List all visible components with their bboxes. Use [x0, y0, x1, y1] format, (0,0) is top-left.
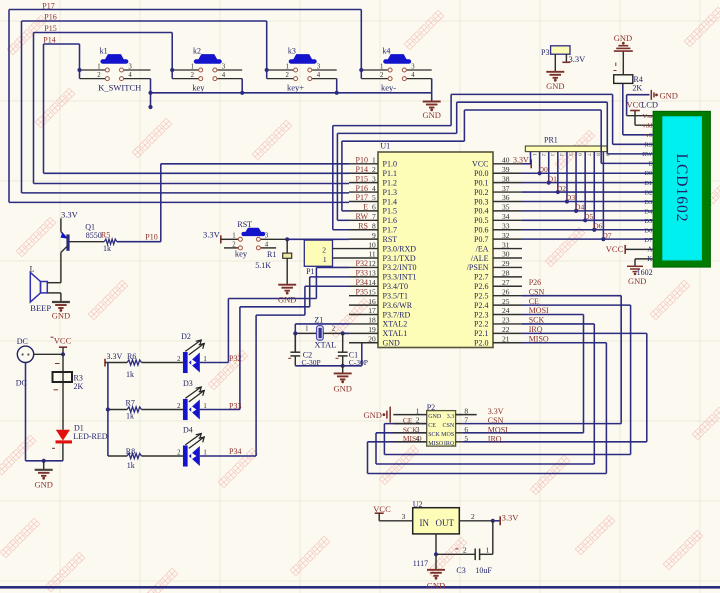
wire RST to U1 pin9	[287, 238, 349, 240]
wire DC to VCC node	[34, 353, 63, 355]
node crystal rail junction	[341, 364, 345, 368]
svg-text:MOSI: MOSI	[488, 425, 508, 434]
svg-text:R7: R7	[126, 399, 135, 408]
wire net P15	[34, 33, 350, 184]
svg-text:D2: D2	[181, 332, 191, 341]
svg-text:P2.0: P2.0	[474, 339, 488, 348]
junction dots key matrix	[77, 68, 363, 109]
svg-text:2: 2	[97, 72, 101, 79]
svg-text:GND: GND	[628, 276, 646, 286]
svg-text:D4: D4	[183, 426, 193, 435]
U1 pin names right	[467, 160, 489, 348]
svg-text:RS: RS	[358, 221, 368, 230]
transistor Q1 8550	[61, 218, 105, 282]
svg-text:P1.0: P1.0	[383, 160, 397, 169]
svg-text:28: 28	[502, 269, 510, 278]
wire net P17	[9, 10, 361, 203]
svg-text:VCC: VCC	[606, 244, 624, 254]
svg-text:GND: GND	[333, 383, 351, 393]
regulator U2 1117	[413, 500, 460, 568]
svg-text:36: 36	[502, 193, 510, 202]
svg-text:1: 1	[372, 156, 376, 165]
svg-text:Q1: Q1	[85, 222, 95, 231]
crystal Z1 XTAL	[295, 315, 349, 349]
svg-text:1k: 1k	[126, 412, 134, 421]
svg-text:U2: U2	[413, 500, 423, 509]
P2 right net labels	[488, 407, 508, 443]
ground DC/LED	[34, 461, 52, 490]
svg-text:R5: R5	[101, 230, 110, 239]
op-amp U1 MCU 8051	[378, 142, 493, 348]
svg-text:GND: GND	[428, 414, 442, 420]
U1 pin numbers left	[368, 156, 376, 344]
power VCC LCD A backlight	[606, 244, 653, 254]
svg-text:6: 6	[576, 153, 582, 156]
svg-text:3.3V: 3.3V	[203, 229, 221, 239]
svg-text:3.3V: 3.3V	[488, 407, 504, 416]
resistor R8 1k	[126, 447, 142, 470]
svg-text:LCD1602: LCD1602	[673, 154, 690, 223]
svg-text:OUT: OUT	[436, 518, 455, 528]
svg-text:k2: k2	[193, 47, 201, 56]
wire U2 ground pin	[435, 534, 437, 554]
svg-text:8550: 8550	[86, 231, 102, 240]
svg-text:P2.2: P2.2	[474, 320, 488, 329]
key switch k1	[80, 47, 151, 81]
svg-text:25: 25	[502, 297, 510, 306]
svg-text:k4: k4	[382, 47, 390, 56]
node ground tee	[42, 459, 46, 463]
svg-text:Vss: Vss	[643, 113, 653, 120]
svg-text:P0.7: P0.7	[474, 235, 488, 244]
wire LED 3.3V rail	[108, 363, 127, 457]
svg-text:P3.1/TXD: P3.1/TXD	[383, 254, 416, 263]
connector P1	[304, 240, 349, 276]
svg-text:VCC: VCC	[373, 504, 391, 514]
ground beeper	[52, 293, 70, 321]
power VCC U2 input	[373, 504, 412, 521]
svg-text:17: 17	[368, 306, 376, 315]
svg-text:P33: P33	[229, 401, 241, 410]
svg-text:3.3V: 3.3V	[107, 352, 123, 361]
svg-text:24: 24	[502, 306, 510, 315]
svg-text:RW: RW	[642, 151, 653, 158]
svg-text:GND: GND	[614, 33, 632, 43]
svg-text:CSN: CSN	[443, 423, 455, 429]
svg-text:2: 2	[191, 72, 195, 79]
svg-text:1: 1	[486, 546, 490, 555]
svg-text:22: 22	[502, 325, 510, 334]
svg-text:MOS: MOS	[441, 432, 454, 438]
connector P3 power header	[541, 46, 570, 57]
svg-text:39: 39	[502, 165, 510, 174]
svg-text:1: 1	[416, 407, 420, 416]
svg-text:k1: k1	[100, 47, 108, 56]
svg-text:P2.4: P2.4	[474, 301, 488, 310]
svg-text:4: 4	[558, 153, 564, 156]
svg-text:1k: 1k	[126, 370, 134, 379]
ground LCD K	[627, 259, 653, 286]
svg-text:27: 27	[502, 278, 510, 287]
ground U2	[427, 554, 445, 590]
svg-text:P10: P10	[145, 232, 157, 241]
svg-text:3.3V: 3.3V	[513, 156, 529, 165]
svg-text:18: 18	[368, 316, 376, 325]
resistor R6 1k	[126, 352, 142, 379]
svg-text:1k: 1k	[103, 244, 111, 253]
svg-text:v0: v0	[646, 132, 653, 139]
svg-text:2: 2	[177, 450, 181, 457]
wire XTAL1 to U1 pin19	[343, 332, 349, 334]
svg-text:R1: R1	[267, 250, 276, 259]
svg-text:P1.6: P1.6	[383, 216, 397, 225]
svg-text:4: 4	[265, 242, 269, 249]
svg-text:BEEP: BEEP	[30, 303, 51, 313]
svg-text:3: 3	[265, 233, 269, 240]
svg-text:3: 3	[411, 63, 415, 70]
svg-text:3: 3	[549, 153, 555, 156]
wire XTAL2 net	[295, 324, 349, 352]
svg-text:VCC: VCC	[472, 160, 488, 169]
svg-text:1: 1	[531, 153, 537, 156]
wire P0 data bus to LCD D0-D7	[522, 173, 653, 239]
svg-text:GND: GND	[52, 311, 70, 321]
svg-text:5: 5	[464, 434, 468, 443]
svg-text:1: 1	[305, 326, 308, 333]
svg-text:P32: P32	[356, 259, 368, 268]
capacitor C2 30P	[290, 333, 320, 367]
svg-text:D6: D6	[644, 228, 653, 235]
svg-text:1: 1	[285, 63, 288, 70]
wire net P10	[117, 164, 349, 242]
power VCC (DC input)	[54, 336, 72, 355]
wire net MISO	[368, 343, 607, 474]
svg-text:P34: P34	[356, 278, 368, 287]
wire net P16	[22, 21, 350, 193]
svg-text:2: 2	[285, 72, 289, 79]
svg-text:D0: D0	[644, 170, 652, 177]
svg-text:D3: D3	[183, 379, 193, 388]
svg-text:P1.1: P1.1	[383, 169, 397, 178]
power 3.3V RST	[203, 229, 224, 243]
svg-text:2: 2	[372, 165, 376, 174]
svg-text:P3.0/RXD: P3.0/RXD	[383, 244, 417, 253]
svg-text:key: key	[235, 248, 248, 258]
ground crystal	[333, 366, 351, 394]
svg-text:A: A	[647, 246, 652, 254]
svg-text:E: E	[363, 203, 368, 212]
svg-text:2: 2	[463, 546, 467, 555]
svg-text:GND: GND	[427, 580, 445, 590]
svg-text:MISO: MISO	[428, 441, 444, 447]
svg-text:1: 1	[323, 255, 327, 264]
svg-text:P14: P14	[356, 165, 368, 174]
wire net RW	[337, 102, 653, 220]
svg-text:31: 31	[502, 240, 510, 249]
svg-text:6: 6	[464, 425, 468, 434]
svg-text:PR1: PR1	[544, 136, 558, 145]
svg-text:P16: P16	[44, 12, 56, 21]
svg-text:15: 15	[368, 287, 376, 296]
LED D3	[142, 379, 207, 420]
svg-text:29: 29	[502, 259, 510, 268]
svg-text:3: 3	[128, 63, 132, 70]
svg-text:P33: P33	[356, 269, 368, 278]
svg-text:GND: GND	[34, 479, 52, 489]
svg-text:SCK: SCK	[428, 432, 440, 438]
wire net SCK	[376, 324, 594, 464]
svg-text:P0.0: P0.0	[474, 169, 488, 178]
svg-text:10uF: 10uF	[475, 566, 492, 575]
svg-text:GND: GND	[422, 110, 440, 120]
svg-text:C3: C3	[456, 566, 465, 575]
wire net MOSI	[462, 315, 583, 433]
U1 pin names left	[383, 160, 417, 348]
ground key matrix	[422, 102, 440, 120]
ground above R4 (inverted)	[614, 33, 633, 75]
svg-text:key+: key+	[287, 83, 304, 93]
speaker L BEEP	[30, 265, 61, 314]
svg-text:GND: GND	[660, 90, 678, 100]
power 3.3V LED rail	[105, 352, 127, 367]
node U2 ground junction	[434, 552, 438, 556]
svg-text:P3.3/INT1: P3.3/INT1	[383, 273, 417, 282]
svg-text:3: 3	[402, 512, 406, 521]
svg-text:R6: R6	[127, 352, 136, 361]
svg-text:12: 12	[368, 259, 376, 268]
svg-text:2: 2	[177, 356, 181, 363]
svg-text:2: 2	[322, 246, 326, 255]
svg-text:2K: 2K	[74, 382, 84, 391]
svg-text:P0.6: P0.6	[474, 226, 488, 235]
PR1 junction dots	[538, 171, 606, 241]
svg-text:P1.4: P1.4	[383, 197, 397, 206]
net labels D0-D7	[539, 165, 612, 240]
svg-text:U1: U1	[380, 142, 390, 151]
wire V0 to R4	[623, 83, 653, 134]
svg-text:vdd: vdd	[643, 122, 654, 129]
wire net P14	[44, 44, 350, 173]
svg-text:2: 2	[416, 416, 420, 425]
node VCC junction	[61, 352, 65, 356]
svg-text:P0.4: P0.4	[474, 207, 488, 216]
node XTAL pin2 junction	[341, 331, 345, 335]
key switch k4	[361, 47, 431, 81]
svg-text:D5: D5	[644, 218, 652, 225]
svg-text:5: 5	[567, 153, 573, 156]
svg-text:2: 2	[471, 512, 475, 521]
svg-text:13: 13	[368, 269, 376, 278]
svg-text:2: 2	[177, 403, 181, 410]
svg-text:1117: 1117	[413, 559, 428, 568]
svg-text:IRQ: IRQ	[488, 434, 502, 443]
capacitor C1 30P	[338, 333, 368, 367]
power 3.3V pin40	[513, 156, 531, 169]
svg-text:E: E	[648, 161, 652, 168]
key switch k2	[172, 47, 242, 81]
ground LCD Vss (side)	[651, 90, 678, 100]
LCD pin labels	[642, 113, 653, 263]
svg-text:P3.2/INT0: P3.2/INT0	[383, 263, 417, 272]
svg-text:3: 3	[222, 63, 226, 70]
svg-text:8: 8	[372, 221, 376, 230]
svg-text:2: 2	[380, 72, 384, 79]
svg-text:P2.6: P2.6	[474, 282, 488, 291]
svg-text:5.1K: 5.1K	[255, 261, 271, 270]
svg-text:P0.5: P0.5	[474, 216, 488, 225]
svg-text:key: key	[192, 83, 205, 93]
svg-text:1: 1	[191, 63, 194, 70]
svg-text:P15: P15	[356, 174, 368, 183]
resistor R1 5.1K	[255, 239, 291, 269]
svg-text:CSN: CSN	[488, 416, 504, 425]
svg-text:XTAL: XTAL	[314, 340, 336, 350]
svg-text:P1.3: P1.3	[383, 188, 397, 197]
wire U2 output 3.3V	[459, 512, 519, 525]
svg-text:P3.7/RD: P3.7/RD	[383, 310, 411, 319]
svg-text:14: 14	[368, 278, 376, 287]
svg-text:3: 3	[372, 174, 376, 183]
U1 pin stubs right	[493, 164, 522, 343]
svg-text:/ALE: /ALE	[471, 254, 489, 263]
svg-text:XTAL2: XTAL2	[383, 320, 408, 329]
resistor R7 1k	[126, 399, 142, 421]
svg-text:38: 38	[502, 174, 510, 183]
svg-text:4: 4	[317, 72, 321, 79]
svg-text:P0.1: P0.1	[474, 178, 488, 187]
svg-text:23: 23	[502, 316, 510, 325]
power 3.3V Q1	[61, 210, 79, 220]
svg-text:11: 11	[368, 250, 375, 259]
svg-text:P1.2: P1.2	[383, 178, 397, 187]
ground R1	[278, 258, 296, 304]
svg-text:XTAL1: XTAL1	[383, 329, 408, 338]
svg-text:k3: k3	[288, 47, 296, 56]
svg-text:P3.6/WR: P3.6/WR	[383, 301, 413, 310]
wire crystal ground rail	[295, 343, 362, 366]
svg-text:VCC: VCC	[54, 336, 72, 346]
ground P3 pin1	[546, 54, 564, 91]
svg-text:D3: D3	[644, 199, 652, 206]
svg-text:CE: CE	[428, 423, 436, 429]
LCD1602 module	[653, 111, 710, 267]
wire VCC to R3	[62, 354, 64, 430]
svg-text:GND: GND	[278, 294, 296, 304]
svg-text:R8: R8	[126, 447, 135, 456]
svg-text:2: 2	[540, 153, 546, 156]
svg-text:40: 40	[502, 156, 510, 165]
svg-text:4: 4	[222, 72, 226, 79]
svg-text:7: 7	[586, 153, 592, 156]
svg-text:P3.5/T1: P3.5/T1	[383, 291, 409, 300]
U1 left net labels	[356, 156, 369, 297]
svg-text:DC: DC	[17, 337, 28, 346]
svg-text:P17: P17	[356, 193, 368, 202]
svg-text:16: 16	[368, 297, 376, 306]
svg-text:5: 5	[372, 193, 376, 202]
wire net CE	[384, 305, 630, 454]
ground P2 pin1 (side)	[363, 407, 390, 423]
resistor R3 2K	[53, 364, 84, 392]
svg-text:35: 35	[502, 203, 510, 212]
svg-text:20: 20	[368, 334, 376, 343]
node XTAL pin1 junction	[293, 331, 297, 335]
svg-text:CE: CE	[403, 416, 413, 425]
svg-text:P17: P17	[42, 2, 54, 11]
svg-text:LCD: LCD	[641, 100, 658, 110]
svg-text:SCK: SCK	[403, 425, 418, 434]
wire D1 to ground rail	[26, 363, 63, 461]
svg-text:P0.3: P0.3	[474, 197, 488, 206]
svg-text:L: L	[30, 265, 35, 274]
svg-text:K_SWITCH: K_SWITCH	[98, 83, 141, 93]
svg-text:1k: 1k	[127, 461, 135, 470]
svg-text:/EA: /EA	[476, 244, 489, 253]
svg-text:GND: GND	[383, 339, 401, 348]
P2 left net labels	[403, 416, 422, 443]
svg-text:19: 19	[368, 325, 376, 334]
power VCC LCD Vdd	[627, 100, 654, 126]
svg-text:GND: GND	[363, 410, 381, 420]
node RST junction	[285, 237, 289, 241]
svg-text:P3: P3	[541, 48, 549, 57]
svg-text:3.3V: 3.3V	[569, 54, 587, 64]
svg-text:34: 34	[502, 212, 510, 221]
key switch RST	[224, 220, 287, 258]
svg-text:4: 4	[411, 72, 415, 79]
svg-text:P2.1: P2.1	[474, 329, 488, 338]
svg-text:10: 10	[368, 240, 376, 249]
svg-text:3.3V: 3.3V	[61, 210, 79, 220]
LED D1 LED-RED	[56, 424, 108, 444]
svg-text:26: 26	[502, 287, 510, 296]
wire net P32	[200, 267, 349, 362]
svg-text:3.3V: 3.3V	[502, 513, 520, 523]
svg-text:2: 2	[332, 326, 336, 333]
svg-text:Z1: Z1	[314, 315, 323, 324]
wire net E	[342, 110, 653, 211]
svg-text:P3.4/T0: P3.4/T0	[383, 282, 409, 291]
svg-text:P2.3: P2.3	[474, 310, 488, 319]
svg-text:IN: IN	[420, 518, 430, 528]
power 3.3V P3 pin2	[562, 54, 586, 64]
svg-text:37: 37	[502, 184, 510, 193]
svg-text:IRQ: IRQ	[444, 441, 455, 447]
svg-text:1: 1	[380, 63, 383, 70]
svg-text:3.3: 3.3	[447, 414, 455, 420]
svg-text:P26: P26	[529, 278, 541, 287]
wire net IRQ	[462, 333, 647, 441]
connector DC jack	[16, 337, 34, 388]
svg-text:K: K	[647, 255, 652, 263]
svg-text:P10: P10	[356, 156, 368, 165]
svg-text:D1: D1	[644, 180, 652, 187]
svg-text:32: 32	[502, 231, 510, 240]
svg-text:30: 30	[502, 250, 510, 259]
svg-text:LED-RED: LED-RED	[73, 432, 107, 441]
svg-text:/PSEN: /PSEN	[467, 263, 489, 272]
tiny pin marks	[51, 63, 617, 549]
svg-text:RST: RST	[383, 235, 398, 244]
svg-text:P1.7: P1.7	[383, 226, 397, 235]
svg-text:8: 8	[595, 153, 601, 156]
svg-text:1: 1	[97, 63, 100, 70]
wire net P33	[200, 277, 349, 410]
svg-text:P34: P34	[229, 447, 241, 456]
U1 pin stubs left	[349, 164, 378, 343]
key switch k3	[267, 47, 337, 81]
svg-text:P15: P15	[44, 24, 56, 33]
